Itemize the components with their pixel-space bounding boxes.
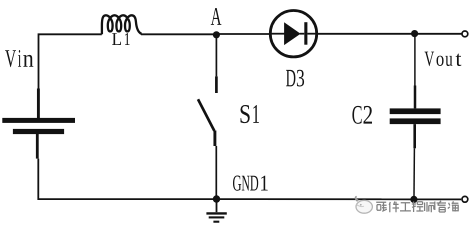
watermark text: 硬件工程师看海 (approximated strokes) xyxy=(376,201,459,212)
wire: node A to diode xyxy=(216,33,270,35)
switch S1: upper lead from node A xyxy=(215,35,217,77)
junction dot top-right xyxy=(411,30,418,37)
inductor L1 xyxy=(102,15,142,34)
char 海 xyxy=(448,201,459,211)
terminal bottom-right (open circle) xyxy=(462,196,468,202)
wire: L1 to node A xyxy=(141,33,213,35)
wire: bottom junction to output terminal xyxy=(414,198,461,200)
wire: top junction down to C2 xyxy=(414,34,416,86)
battery short plate xyxy=(13,129,64,134)
diode D3 xyxy=(270,11,316,57)
switch S1 bottom contact xyxy=(213,131,216,147)
wire: battery positive lead up and top rail to L1 xyxy=(39,34,102,89)
char 程 xyxy=(412,202,424,213)
watermark logo (whale) xyxy=(355,196,372,213)
junction dot bottom-right xyxy=(410,196,417,203)
wire: diode to output junction xyxy=(317,33,415,35)
battery bottom stem xyxy=(36,134,39,159)
char 件 xyxy=(389,202,399,213)
label GND1 xyxy=(233,176,268,191)
wire: bottom rail ground junction to right junction xyxy=(217,198,411,200)
wire: C2 to bottom junction xyxy=(413,148,415,196)
battery Vin xyxy=(2,89,75,159)
label C2 xyxy=(352,106,372,124)
C2 top lead stem xyxy=(414,86,417,109)
char 看 xyxy=(437,201,446,212)
label A xyxy=(211,8,222,25)
wire: switch to ground junction xyxy=(215,146,217,196)
label S1 xyxy=(241,105,260,123)
wire: junction to Vout terminal xyxy=(415,33,462,35)
wire: battery to bottom rail and to ground junction xyxy=(38,159,213,200)
C2 bottom lead stem xyxy=(413,124,416,148)
label D3 xyxy=(286,70,304,87)
label Vin xyxy=(5,50,33,67)
label L1 xyxy=(112,33,130,45)
char 师 xyxy=(425,202,435,213)
capacitor C2 xyxy=(390,108,441,114)
battery long plate xyxy=(2,118,75,123)
terminal Vout (open circle) xyxy=(462,31,468,37)
char 工 xyxy=(400,203,411,211)
switch S1 blade xyxy=(198,99,214,131)
battery top stem xyxy=(37,89,40,119)
ground symbol xyxy=(206,199,226,222)
label Vout xyxy=(425,52,462,67)
char 硬 xyxy=(376,202,387,211)
node A junction dot xyxy=(213,31,220,38)
ground junction dot GND1 xyxy=(213,195,220,202)
switch S1 top contact xyxy=(215,76,218,93)
